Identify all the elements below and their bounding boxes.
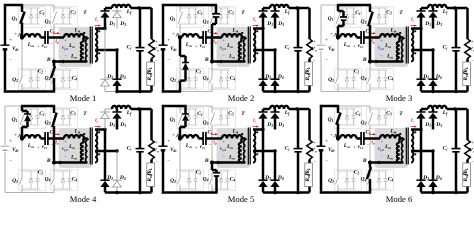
inductor Lm magnetizing <box>397 42 400 62</box>
svg-text:D3: D3 <box>119 122 126 128</box>
svg-text:C2: C2 <box>354 170 360 176</box>
svg-text:Vo: Vo <box>153 47 159 53</box>
wire Lr to Cr <box>199 36 204 39</box>
diode D4 <box>116 151 118 180</box>
svg-text:Lσs: Lσs <box>27 143 35 149</box>
diode D3 <box>274 8 277 11</box>
svg-text:D1: D1 <box>266 122 273 128</box>
svg-text:C3: C3 <box>228 111 234 117</box>
svg-text:+: + <box>37 44 40 49</box>
wire Cr to transformer <box>206 36 222 39</box>
inductor Llk top coil <box>380 34 400 37</box>
svg-text:Cf: Cf <box>127 45 133 51</box>
wire output top rail <box>105 108 112 110</box>
transformer secondary winding <box>253 29 255 62</box>
transistor Q2 leg <box>179 37 181 76</box>
source Vdc battery <box>317 145 326 147</box>
svg-text:C4: C4 <box>388 177 394 183</box>
load label box <box>305 163 313 187</box>
svg-text:T: T <box>399 10 403 16</box>
svg-text:+: + <box>155 140 158 145</box>
wire output top rail <box>105 7 112 10</box>
svg-text:Cf: Cf <box>285 146 291 152</box>
svg-text:Vo: Vo <box>469 148 474 154</box>
svg-text:D1: D1 <box>108 21 115 27</box>
capacitor C4 charging drop <box>211 163 214 171</box>
wire primary bottom return to node B <box>370 60 403 63</box>
svg-text:Q3: Q3 <box>45 120 51 126</box>
wire secondary bottom lead <box>411 150 433 153</box>
svg-text:Q1: Q1 <box>12 16 18 22</box>
transformer T primary winding <box>86 140 88 163</box>
svg-text:D4: D4 <box>435 175 442 181</box>
svg-text:−: − <box>64 55 67 60</box>
svg-text:+: + <box>325 39 328 44</box>
wire output top rail <box>421 108 428 111</box>
transistor Q3 leg <box>53 5 55 12</box>
wire primary bottom return to node B <box>54 60 87 63</box>
svg-text:Vo: Vo <box>469 47 474 53</box>
svg-text:is: is <box>253 118 257 124</box>
circuit mode 5 <box>159 105 317 204</box>
capacitor C1 snubber group <box>338 7 356 9</box>
svg-text:Q1: Q1 <box>12 117 18 123</box>
wire left rail (thin base) <box>162 5 164 44</box>
diode D3 <box>116 109 119 112</box>
svg-text:Q4: Q4 <box>45 177 51 183</box>
load resistor Ro||RL <box>466 8 469 39</box>
svg-text:Mode 1: Mode 1 <box>70 93 97 103</box>
svg-text:D2: D2 <box>264 175 271 181</box>
transformer core <box>405 27 407 64</box>
svg-text:Q1: Q1 <box>170 117 176 123</box>
svg-text:D3: D3 <box>119 21 126 27</box>
wire bottom rail primary (thin base) <box>321 192 370 194</box>
svg-text:−: − <box>155 59 158 64</box>
svg-text:Q4: Q4 <box>45 76 51 82</box>
svg-text:Q2: Q2 <box>170 77 176 83</box>
wire Lr to Cr <box>357 36 362 39</box>
svg-text:−: − <box>51 41 54 46</box>
polarity dot primary <box>399 133 401 135</box>
svg-text:Q4: Q4 <box>361 76 367 82</box>
capacitor C2 snubber group <box>180 170 198 172</box>
wire top rail thick <box>162 105 187 108</box>
svg-text:D2: D2 <box>422 74 429 80</box>
svg-text:C1: C1 <box>355 10 361 16</box>
svg-text:+: + <box>64 39 67 44</box>
source Vdc battery <box>1 44 10 46</box>
transformer T primary winding <box>402 39 404 62</box>
wire Cr to transformer <box>48 137 64 140</box>
svg-text:D2: D2 <box>264 74 271 80</box>
switch cell boxes <box>177 7 204 28</box>
inductor Lr <box>340 34 357 37</box>
node B <box>52 60 56 64</box>
switch cell boxes <box>19 108 46 129</box>
svg-text:+: + <box>222 140 225 145</box>
svg-text:−: − <box>222 55 225 60</box>
capacitor C2 snubber group <box>338 69 356 71</box>
source Vdc battery <box>317 44 326 46</box>
wire top rail thick <box>320 105 339 108</box>
circuit mode 4 <box>1 106 159 204</box>
load resistor Ro||RL <box>150 8 153 39</box>
transistor Q1 leg <box>337 106 339 113</box>
wire primary bottom return to node B <box>212 60 245 63</box>
svg-text:Q2: Q2 <box>328 77 334 83</box>
svg-text:−: − <box>9 160 12 165</box>
svg-text:Lf: Lf <box>284 9 290 15</box>
capacitor C3 snubber group <box>54 108 72 110</box>
capacitor C1 snubber group <box>180 108 198 110</box>
diode D3 <box>116 8 118 11</box>
node B <box>52 161 56 165</box>
svg-text:Q2: Q2 <box>170 178 176 184</box>
svg-text:−: − <box>9 59 12 64</box>
capacitor C3 snubber group <box>370 7 388 9</box>
load label box <box>463 62 471 86</box>
svg-text:B: B <box>362 158 367 164</box>
svg-text:T: T <box>83 111 87 117</box>
svg-text:ip: ip <box>371 140 375 146</box>
inductor Lf <box>428 106 447 109</box>
wire output bottom rail <box>421 191 468 194</box>
svg-text:−: − <box>167 59 170 64</box>
transistor Q3 leg <box>369 5 371 12</box>
svg-text:T: T <box>241 10 245 16</box>
diode D1 <box>104 109 106 112</box>
current direction arrow at B <box>59 60 64 64</box>
wire bottom rail primary (thin base) <box>5 91 54 93</box>
gray coupling box <box>59 27 93 67</box>
svg-text:−: − <box>313 59 316 64</box>
wire secondary top lead <box>95 128 105 131</box>
svg-text:C3: C3 <box>70 10 76 16</box>
svg-text:−: − <box>367 142 370 147</box>
diode D1 <box>420 109 423 112</box>
svg-text:Lf: Lf <box>126 110 132 116</box>
svg-text:C4: C4 <box>230 76 236 82</box>
svg-text:D3: D3 <box>435 21 442 27</box>
svg-text:C1: C1 <box>355 111 361 117</box>
diode D2 <box>420 130 423 181</box>
diode D4 <box>432 50 435 79</box>
wire top rail thick <box>162 4 217 7</box>
inductor Llk top coil <box>222 135 242 138</box>
wire secondary top lead <box>411 27 421 30</box>
capacitor C1 snubber group <box>338 108 356 110</box>
inductor Lr <box>24 34 41 37</box>
capacitor C4 snubber group <box>370 69 388 71</box>
gray coupling box <box>217 27 251 67</box>
svg-text:Cf: Cf <box>443 45 449 51</box>
svg-text:C2: C2 <box>196 69 202 75</box>
current direction arrow at B <box>217 60 222 64</box>
svg-text:+: + <box>325 140 328 145</box>
node A <box>20 136 24 140</box>
circuit mode 2 <box>159 4 317 103</box>
svg-text:Cf: Cf <box>443 146 449 152</box>
gray coupling box <box>59 128 93 168</box>
svg-text:+: + <box>37 145 40 150</box>
diode D2 <box>262 29 265 80</box>
svg-text:−: − <box>380 156 383 161</box>
svg-text:ip: ip <box>55 39 59 45</box>
current direction arrow at B <box>218 161 223 165</box>
svg-text:−: − <box>313 160 316 165</box>
inductor Lf <box>428 5 447 8</box>
svg-text:C4: C4 <box>72 177 78 183</box>
transistor Q1 on <box>21 5 24 12</box>
svg-text:C4: C4 <box>388 76 394 82</box>
svg-text:D4: D4 <box>119 74 126 80</box>
wire left rail thick <box>320 105 323 146</box>
svg-text:Vdc: Vdc <box>12 47 19 52</box>
gray coupling box <box>375 27 409 67</box>
svg-text:Lσs: Lσs <box>185 143 193 149</box>
capacitor C3 snubber group <box>212 7 230 9</box>
svg-text:Q3: Q3 <box>361 120 367 126</box>
svg-text:C4: C4 <box>72 76 78 82</box>
transistor Q4 on <box>53 62 56 67</box>
capacitor C3 snubber group <box>54 7 72 9</box>
circuit mode 6 <box>317 105 474 204</box>
svg-text:Mode 3: Mode 3 <box>386 93 413 103</box>
transformer core <box>247 27 249 64</box>
svg-text:Cf: Cf <box>285 45 291 51</box>
transformer secondary winding <box>95 130 97 163</box>
svg-text:Lσs: Lσs <box>27 42 35 48</box>
transistor Q1 leg <box>21 106 23 113</box>
svg-text:ip: ip <box>213 39 217 45</box>
transformer secondary winding <box>411 130 413 163</box>
node A <box>336 35 340 39</box>
svg-text:−: − <box>222 156 225 161</box>
svg-text:Vdc: Vdc <box>12 148 19 153</box>
transistor Q2 leg <box>337 138 339 177</box>
capacitor C4 snubber group <box>54 69 72 71</box>
svg-text:+: + <box>313 39 316 44</box>
wire Cr to transformer <box>206 137 222 140</box>
wire output top rail <box>263 108 270 111</box>
wire secondary top lead <box>253 27 263 30</box>
wire secondary top lead <box>411 128 421 131</box>
wire Lr to Cr <box>41 36 46 39</box>
load label box <box>147 163 155 187</box>
svg-text:Lf: Lf <box>284 110 290 116</box>
diode D1 <box>420 8 423 11</box>
svg-text:C2: C2 <box>354 69 360 75</box>
svg-text:D3: D3 <box>435 122 442 128</box>
wire output bottom rail <box>263 90 310 93</box>
svg-text:−: − <box>380 55 383 60</box>
svg-text:C3: C3 <box>228 10 234 16</box>
svg-text:C1: C1 <box>197 111 203 117</box>
svg-text:+: + <box>222 39 225 44</box>
svg-text:D1: D1 <box>424 122 431 128</box>
wire Lr to Cr <box>41 137 46 140</box>
inductor Llk top coil <box>64 34 84 37</box>
svg-text:is: is <box>411 17 415 23</box>
wire left rail thick <box>4 4 7 45</box>
svg-text:ip: ip <box>371 39 375 45</box>
transformer T primary winding <box>86 39 88 62</box>
transistor Q3 leg <box>211 106 213 113</box>
svg-text:+: + <box>313 140 316 145</box>
load resistor Ro||RL <box>150 109 153 140</box>
node B <box>368 60 372 64</box>
svg-text:D4: D4 <box>119 175 126 181</box>
wire top rail (thin base) <box>321 4 370 6</box>
transformer secondary winding <box>253 130 255 163</box>
transistor Q4 leg <box>53 162 55 177</box>
wire top rail (thin base) <box>5 105 54 107</box>
transistor Q1 leg <box>179 106 181 113</box>
svg-text:D2: D2 <box>106 175 113 181</box>
wire top rail (thin base) <box>163 105 212 107</box>
svg-text:ip: ip <box>55 140 59 146</box>
wire Cr to transformer <box>48 36 64 39</box>
wire left rail (thin base) <box>162 106 164 145</box>
node B <box>210 161 214 165</box>
circuit mode 1 <box>1 4 159 103</box>
polarity dot secondary <box>414 30 416 32</box>
transistor Q1 leg <box>179 5 181 12</box>
wire left rail thick <box>162 105 165 146</box>
svg-text:+: + <box>9 140 12 145</box>
svg-text:Vo: Vo <box>153 148 159 154</box>
wire output bottom rail <box>263 191 310 194</box>
svg-text:C2: C2 <box>196 170 202 176</box>
wire output top rail <box>421 7 428 10</box>
wire bottom rail thick <box>320 191 371 194</box>
svg-text:−: − <box>325 59 328 64</box>
svg-text:C2: C2 <box>38 69 44 75</box>
wire bottom rail primary (thin base) <box>5 192 54 194</box>
svg-text:+: + <box>9 39 12 44</box>
transistor Q2 leg <box>337 37 339 76</box>
inductor Llk top coil <box>222 34 242 37</box>
diode D2 <box>104 29 106 80</box>
capacitor C3 snubber group <box>212 108 230 110</box>
wire left rail thick <box>162 4 165 45</box>
svg-text:Mode 6: Mode 6 <box>386 194 413 202</box>
wire secondary top lead <box>95 27 105 30</box>
transformer core <box>247 128 249 165</box>
inductor Lf <box>270 5 289 8</box>
load label box <box>305 62 313 86</box>
inductor Lm magnetizing <box>81 143 84 163</box>
diode D1 <box>104 8 107 11</box>
switch cell boxes <box>335 7 362 28</box>
svg-text:−: − <box>325 160 328 165</box>
node A <box>336 136 340 140</box>
polarity dot primary <box>399 32 401 34</box>
wire secondary bottom lead <box>253 49 275 52</box>
wire secondary bottom lead <box>253 150 275 153</box>
svg-text:D4: D4 <box>435 74 442 80</box>
diode D3 <box>432 109 435 112</box>
svg-text:B: B <box>204 158 209 164</box>
svg-text:−: − <box>155 160 158 165</box>
transistor Q4 leg <box>369 162 371 177</box>
svg-text:Lf: Lf <box>442 9 448 15</box>
transistor Q1 on <box>337 106 340 113</box>
transistor Q3 on <box>369 5 372 12</box>
wire Cr to transformer <box>364 137 380 140</box>
svg-text:Q3: Q3 <box>361 19 367 25</box>
capacitor Cf <box>139 8 142 48</box>
switch cell boxes <box>177 108 204 129</box>
wire secondary bottom lead <box>411 49 433 52</box>
node B <box>210 60 214 64</box>
transformer core <box>89 128 91 165</box>
diode D1 <box>262 109 265 112</box>
svg-text:Mode 2: Mode 2 <box>228 93 255 103</box>
wire top rail thick <box>337 4 371 7</box>
capacitor C1 snubber group <box>22 7 40 9</box>
diode D3 <box>274 109 277 112</box>
node A <box>178 136 182 140</box>
svg-text:Q3: Q3 <box>203 120 209 126</box>
transformer core <box>405 128 407 165</box>
svg-text:B: B <box>46 158 51 164</box>
diode body DQ1 conducting <box>21 106 24 111</box>
transistor Q3 leg <box>53 106 55 113</box>
svg-text:ip: ip <box>213 140 217 146</box>
load resistor Ro||RL <box>466 109 469 140</box>
wire bottom rail primary (thin base) <box>321 91 370 93</box>
diode D4 <box>274 151 277 180</box>
polarity dot secondary <box>414 131 416 133</box>
svg-text:Cf: Cf <box>127 146 133 152</box>
node A <box>20 35 24 39</box>
wire left rail (thin base) <box>4 106 6 145</box>
polarity dot secondary <box>256 30 258 32</box>
inductor Llk top coil <box>64 135 84 138</box>
transistor Q1 leg <box>21 5 23 12</box>
inductor Lm magnetizing <box>239 42 242 62</box>
svg-text:C1: C1 <box>197 10 203 16</box>
svg-text:C3: C3 <box>386 111 392 117</box>
svg-text:Q1: Q1 <box>170 16 176 22</box>
svg-text:D3: D3 <box>277 122 284 128</box>
capacitor Cf <box>297 109 300 149</box>
svg-text:Vo: Vo <box>311 148 317 154</box>
capacitor C1 snubber group <box>180 7 198 9</box>
wire output bottom rail <box>105 91 117 93</box>
svg-text:Q1: Q1 <box>328 16 334 22</box>
transformer T primary winding <box>402 140 404 163</box>
wire primary bottom return to node B <box>370 161 403 164</box>
svg-text:C1: C1 <box>39 10 45 16</box>
diode D4 <box>116 50 119 79</box>
polarity dot secondary <box>98 131 100 133</box>
wire bottom rail thick <box>162 191 218 194</box>
svg-text:Q2: Q2 <box>328 178 334 184</box>
node B <box>368 161 372 165</box>
wire left rail (thin base) <box>320 106 322 145</box>
switch cell boxes <box>335 108 362 129</box>
inductor Lf <box>112 106 131 109</box>
svg-text:Q2: Q2 <box>12 77 18 83</box>
svg-text:Q2: Q2 <box>12 178 18 184</box>
wire bottom rail primary (thin base) <box>163 192 212 194</box>
svg-text:Vo: Vo <box>311 47 317 53</box>
svg-text:+: + <box>195 44 198 49</box>
svg-text:−: − <box>167 160 170 165</box>
